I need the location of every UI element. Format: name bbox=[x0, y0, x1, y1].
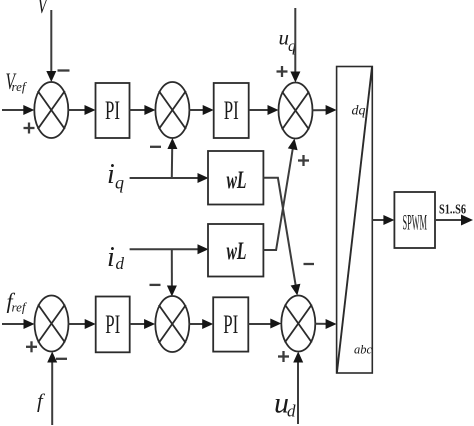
svg-text:d: d bbox=[116, 254, 125, 273]
sign plus at E4 left bbox=[26, 341, 37, 352]
wire iq branch up to E2 bbox=[167, 138, 177, 178]
svg-text:S1..S6: S1..S6 bbox=[439, 202, 466, 217]
block wL2 bbox=[208, 224, 263, 277]
svg-text:SPWM: SPWM bbox=[403, 210, 428, 235]
summing junction E6 bbox=[281, 296, 315, 352]
svg-text:ref: ref bbox=[12, 79, 28, 94]
sign minus at E6 top bbox=[304, 263, 315, 265]
block PI3 bbox=[96, 297, 130, 353]
svg-text:wL: wL bbox=[227, 238, 247, 265]
wire V input bbox=[46, 10, 56, 82]
wire PI4 to E6 bbox=[248, 319, 281, 329]
svg-text:d: d bbox=[287, 401, 296, 420]
block wL1 bbox=[208, 151, 263, 205]
wire ud input bbox=[293, 352, 303, 425]
wire f input bbox=[47, 352, 57, 426]
summing junction E3 bbox=[279, 83, 313, 139]
node uq label bbox=[279, 25, 297, 55]
summing junction E1 bbox=[34, 82, 68, 138]
node Vref label bbox=[6, 69, 28, 94]
wire SPWM output bbox=[435, 215, 473, 226]
wire E5 to PI4 bbox=[189, 319, 213, 329]
wire id branch down to E5 bbox=[167, 249, 177, 296]
node id label bbox=[107, 242, 125, 273]
wire E6 to dq/abc block bbox=[315, 319, 336, 329]
wire E1 to PI1 bbox=[68, 105, 95, 115]
block PI1 bbox=[96, 83, 130, 138]
wire fref input bbox=[2, 319, 35, 329]
svg-text:ref: ref bbox=[12, 300, 28, 315]
block PI2 bbox=[214, 83, 249, 138]
svg-text:wL: wL bbox=[227, 167, 247, 194]
wire E2 to PI2 bbox=[189, 105, 213, 115]
node fref label bbox=[7, 289, 28, 315]
sign minus at E1 top bbox=[58, 69, 70, 71]
sign plus at E6 bottom bbox=[278, 351, 289, 362]
sign minus at E2 bottom bbox=[150, 146, 161, 148]
svg-text:PI: PI bbox=[105, 96, 120, 125]
svg-text:q: q bbox=[115, 173, 124, 193]
sign plus at E1 left bbox=[24, 123, 35, 134]
sign plus at E3 bottom bbox=[298, 155, 309, 166]
wire wL1 to E6 crossing down bbox=[263, 178, 300, 296]
block PI4 bbox=[213, 297, 248, 351]
wire PI1 to E2 bbox=[130, 105, 156, 115]
wire wL2 to E3 crossing up bbox=[263, 139, 297, 251]
svg-text:PI: PI bbox=[223, 310, 238, 339]
svg-text:i: i bbox=[107, 159, 115, 190]
wire uq input bbox=[290, 8, 300, 83]
node ud label bbox=[274, 386, 296, 420]
wire dq/abc to SPWM bbox=[372, 215, 394, 225]
svg-text:abc: abc bbox=[354, 342, 372, 357]
block dq/abc transform bbox=[337, 67, 373, 374]
wire PI3 to E5 bbox=[130, 319, 155, 329]
svg-text:PI: PI bbox=[224, 96, 239, 125]
wire E4 to PI3 bbox=[69, 319, 96, 329]
svg-text:i: i bbox=[107, 242, 115, 273]
summing junction E2 bbox=[155, 82, 189, 138]
svg-text:PI: PI bbox=[105, 310, 120, 339]
wire iq to wL1 bbox=[130, 173, 209, 183]
svg-text:dq: dq bbox=[352, 104, 366, 119]
node f label bbox=[37, 391, 46, 413]
sign minus at E5 top bbox=[150, 284, 161, 286]
wire Vref input bbox=[2, 105, 34, 115]
wire PI2 to E3 bbox=[249, 105, 279, 115]
node iq label bbox=[107, 159, 124, 192]
wire id to wL2 bbox=[130, 244, 209, 254]
summing junction E4 bbox=[35, 296, 69, 352]
block SPWM bbox=[394, 192, 435, 248]
node S1..S6 label bbox=[439, 202, 466, 217]
sign minus at E4 bottom bbox=[56, 358, 67, 360]
summing junction E5 bbox=[155, 296, 189, 352]
sign plus at E3 top bbox=[277, 66, 288, 77]
wire E3 to dq/abc block bbox=[313, 105, 337, 115]
node V label bbox=[38, 0, 49, 18]
